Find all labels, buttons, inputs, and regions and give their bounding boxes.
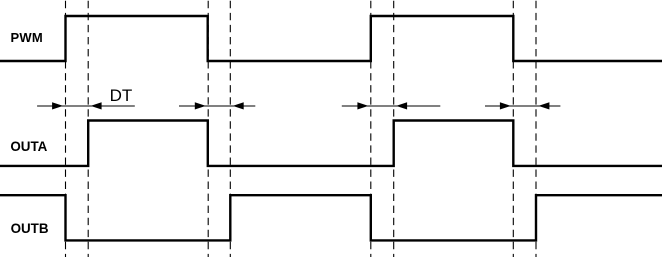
dashed line t3 — [207, 1, 209, 257]
dashed line t7 — [512, 1, 514, 257]
svg-text:OUTB: OUTB — [11, 221, 49, 236]
signal PWM waveform — [0, 16, 662, 61]
dead-time arrows 4 (PWM falling 2) — [485, 102, 560, 109]
dashed line t5 — [370, 1, 372, 257]
svg-text:DT: DT — [110, 86, 133, 105]
dashed line t6 — [393, 1, 395, 257]
dead-time arrows 1 (PWM rising) — [37, 102, 135, 109]
dashed line t4 — [229, 1, 231, 257]
signal OUTA waveform — [0, 121, 662, 166]
dashed line t8 — [535, 1, 537, 257]
svg-text:PWM: PWM — [11, 30, 43, 45]
dead-time arrows 2 (PWM falling) — [179, 102, 255, 109]
signal OUTB waveform — [0, 195, 662, 240]
svg-text:OUTA: OUTA — [10, 139, 47, 154]
dead-time arrows 3 (PWM rising 2) — [342, 102, 441, 109]
dashed line t2 — [87, 1, 89, 257]
dashed line t1 — [65, 1, 67, 257]
